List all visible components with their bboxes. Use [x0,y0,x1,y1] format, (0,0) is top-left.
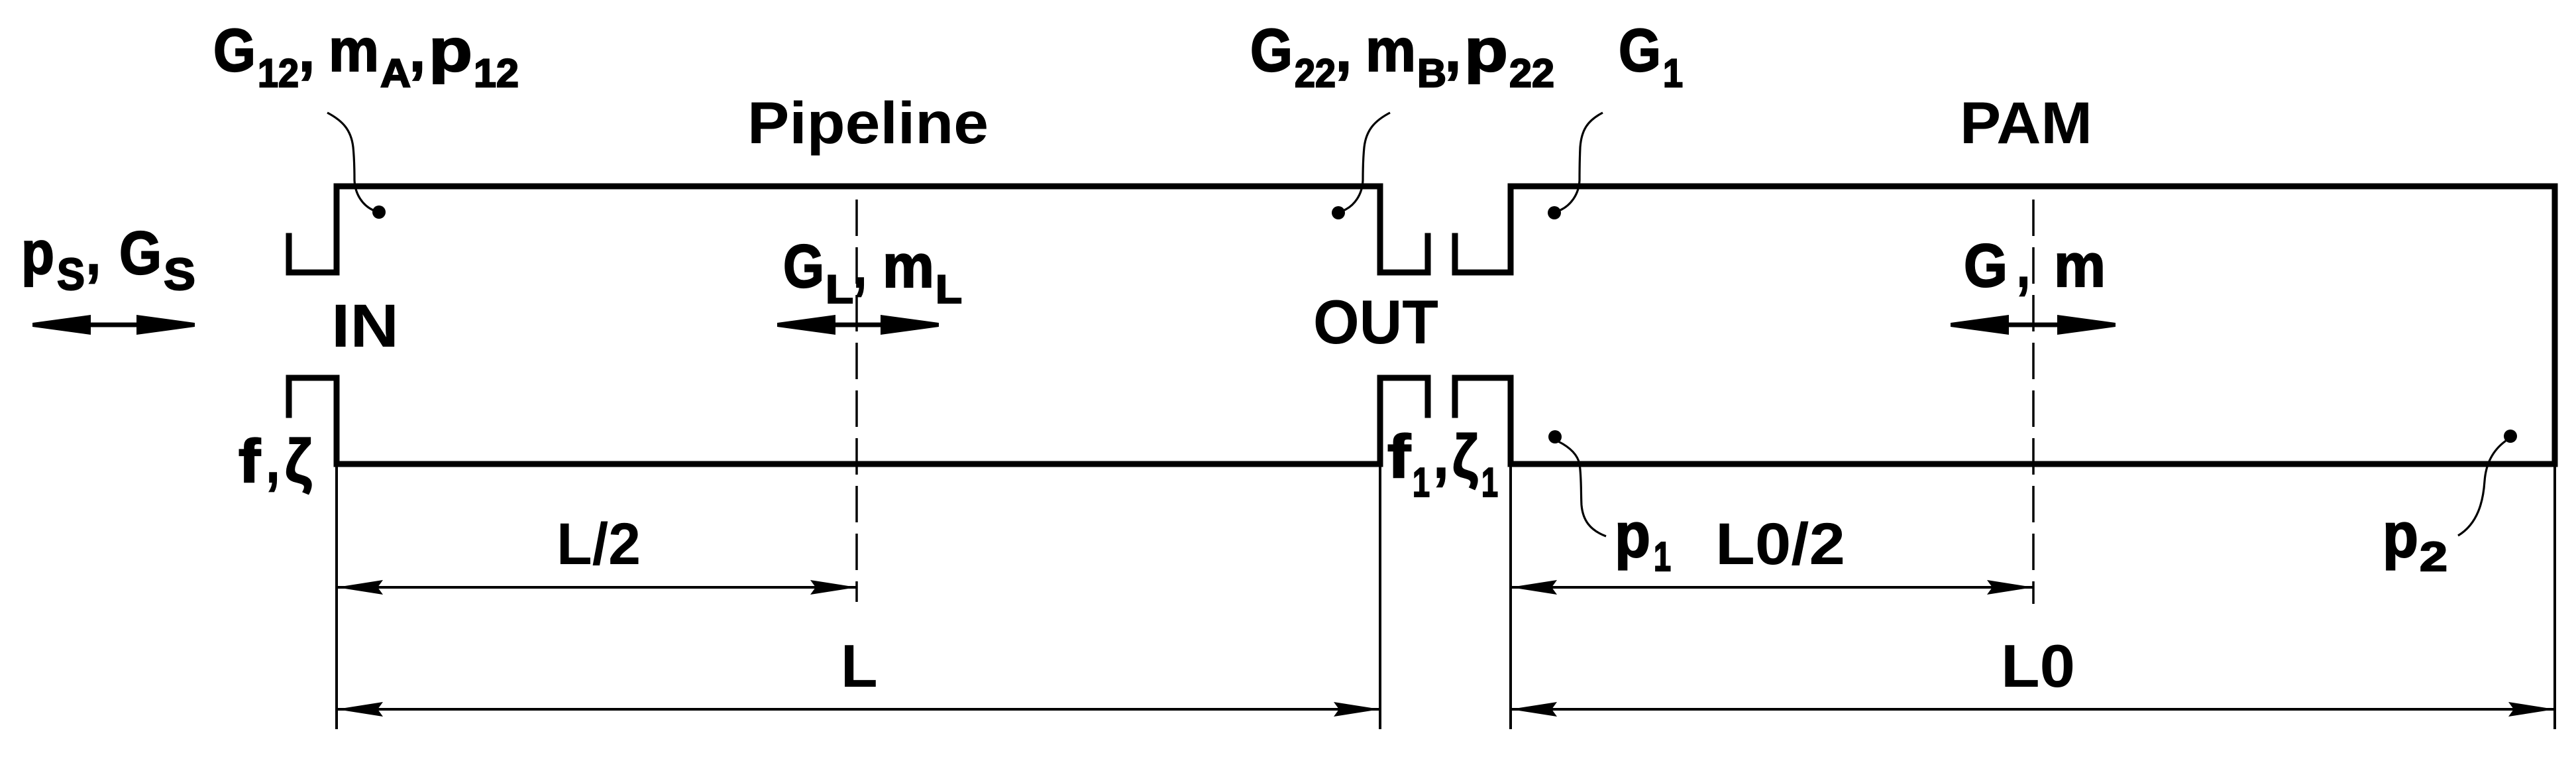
svg-text:B: B [1417,51,1446,95]
svg-text:S: S [164,249,195,300]
svg-text:f: f [1387,423,1411,491]
svg-text:G: G [1250,17,1293,84]
svg-text:OUT: OUT [1313,287,1438,357]
svg-text:Pipeline: Pipeline [747,89,989,156]
svg-text:ζ: ζ [1452,423,1478,491]
svg-text:G: G [119,219,162,287]
svg-text:L/2: L/2 [557,510,641,577]
svg-text:,: , [1336,17,1352,84]
svg-text:IN: IN [331,292,399,360]
svg-text:f: f [239,428,260,495]
svg-text:G: G [1964,232,2008,300]
svg-text:L0: L0 [2001,633,2075,700]
svg-text:ζ: ζ [285,428,312,495]
svg-text:,: , [1434,423,1448,491]
svg-text:G: G [783,233,824,300]
svg-text:22: 22 [1295,51,1336,95]
svg-text:m: m [883,233,934,300]
svg-text:L0/2: L0/2 [1715,510,1845,577]
svg-text:p: p [1615,500,1650,571]
svg-text:p: p [21,219,54,287]
svg-text:1: 1 [1481,460,1498,506]
svg-text:A: A [380,51,411,95]
svg-text:22: 22 [1509,51,1554,95]
svg-text:,: , [2017,232,2030,300]
svg-text:,: , [266,428,280,495]
svg-text:1: 1 [1663,51,1683,95]
svg-text:L: L [826,267,853,312]
svg-text:,: , [1445,17,1461,84]
svg-text:,: , [409,17,425,84]
svg-text:L: L [936,267,962,312]
svg-text:,: , [853,233,867,300]
svg-text:L: L [841,633,878,700]
svg-text:m: m [329,17,379,84]
svg-text:S: S [57,249,85,300]
svg-text:m: m [1366,17,1416,84]
svg-text:,: , [86,219,101,287]
svg-text:1: 1 [1413,460,1430,506]
svg-text:G: G [213,17,256,84]
svg-text:p: p [1464,17,1508,84]
svg-text:m: m [2054,232,2106,300]
svg-text:p: p [2383,500,2418,571]
svg-text:12: 12 [474,51,519,95]
svg-text:1: 1 [1654,534,1671,580]
svg-text:G: G [1619,17,1661,84]
svg-text:p: p [429,17,472,84]
svg-text:PAM: PAM [1960,89,2092,156]
svg-text:,: , [299,17,315,84]
svg-text:12: 12 [258,51,299,95]
svg-text:2: 2 [2420,534,2447,580]
